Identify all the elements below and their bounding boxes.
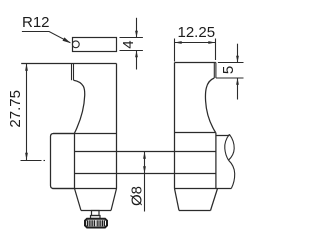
dim 4 lower arrowhead (135, 51, 138, 58)
dim 5 upper shaft (237, 44, 239, 63)
right jaw curve (205, 78, 215, 133)
cylinder top edge (216, 135, 230, 137)
dim 5 upper arrowhead (236, 56, 239, 63)
left jaw curve (74, 80, 85, 133)
dim 27.75 line (26, 64, 28, 161)
dim 12.25 line (175, 42, 216, 44)
right part left edge (174, 63, 176, 189)
right body right edge (215, 133, 217, 189)
left part slot right line (73, 64, 75, 81)
spindle rod top line across both parts (75, 151, 216, 153)
leader line R12 with underline (22, 32, 70, 43)
dim 5 lower shaft (237, 78, 239, 100)
right body top line (175, 132, 216, 134)
thumbscrew stem (92, 211, 100, 216)
svg-text:Ø8: Ø8 (129, 186, 146, 206)
leader arrowhead R12 (63, 37, 71, 43)
dim diameter 8 top arrowhead (143, 152, 146, 159)
dim diameter 8 bottom arrowhead (143, 166, 146, 173)
dim 4 lower shaft (136, 51, 138, 70)
break leaf right arc (229, 134, 235, 160)
svg-text:R12: R12 (22, 14, 50, 31)
right taper bottom edge (179, 210, 211, 212)
left taper left diagonal (75, 189, 82, 211)
anvil insert tab rectangle (73, 38, 117, 52)
dim diameter 8 line (144, 152, 146, 212)
dim 12.25 left extension line (174, 39, 176, 62)
tab circle detail (72, 41, 79, 48)
dim 5 extension line top (218, 62, 244, 64)
left taper bottom edge (81, 210, 111, 212)
right body bottom line with cylinder bottom (175, 188, 232, 190)
svg-text:12.25: 12.25 (178, 24, 216, 41)
dim 12.25 right arrowhead (208, 41, 215, 44)
svg-text:4: 4 (120, 40, 137, 48)
right step inner line (213, 63, 215, 79)
dim 12.25 left arrowhead (175, 41, 182, 44)
right part top edge (175, 62, 216, 64)
centerline dash (21, 160, 42, 162)
dim 5 lower arrowhead (236, 78, 239, 85)
left clamp block (51, 134, 75, 189)
svg-text:5: 5 (220, 66, 237, 74)
right step outer line (215, 63, 217, 79)
svg-text:27.75: 27.75 (7, 90, 24, 128)
left body bottom line (52, 188, 117, 190)
thumbscrew collar (91, 216, 101, 219)
left block right edge (74, 134, 76, 189)
break tail curve (229, 160, 235, 188)
dim 27.75 bottom arrowhead (25, 153, 28, 160)
dim 4 upper shaft (136, 18, 138, 38)
right taper right diagonal (211, 189, 218, 211)
dim 12.25 right extension line (215, 39, 217, 61)
spindle rod bottom line across both parts (75, 173, 216, 175)
knob knurl lines (87, 220, 104, 226)
centerline dot (44, 160, 46, 162)
right taper left diagonal (175, 189, 180, 211)
knurled knob outline (85, 219, 107, 228)
dim 4 extension line bottom (120, 50, 143, 52)
dim 4 extension line top (120, 37, 143, 39)
left part top edge merged with 27.75 extension line (21, 63, 116, 65)
break leaf left arc (225, 134, 230, 160)
left part slot left line (71, 64, 73, 81)
dim 27.75 top arrowhead (25, 64, 28, 71)
dim 5 extension line bottom (216, 77, 244, 79)
left taper right diagonal (111, 189, 117, 211)
left part right edge (116, 64, 118, 189)
dim 4 upper arrowhead (135, 31, 138, 38)
left body top line (53, 133, 117, 135)
